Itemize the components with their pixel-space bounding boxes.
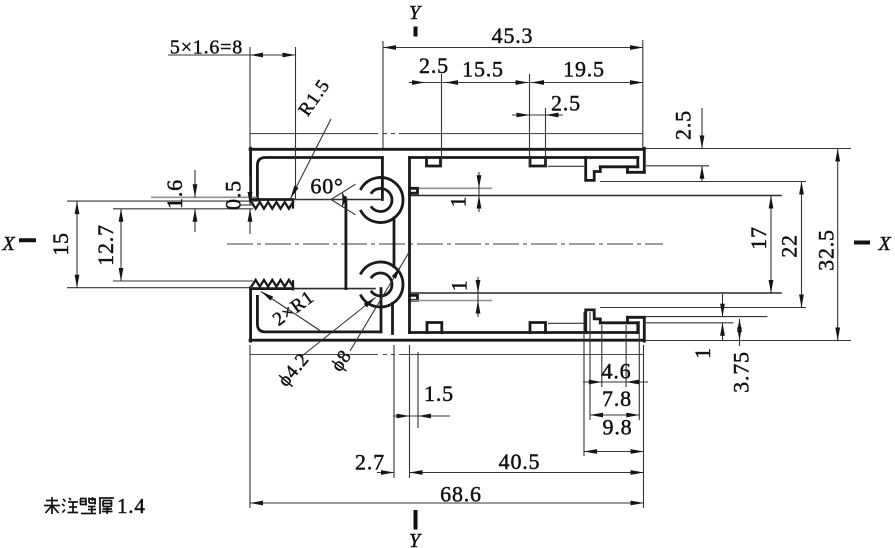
ext line y165.8 [646, 165, 709, 167]
dim 2.5 mid arrows [517, 113, 530, 118]
ext line x418 bottom [417, 352, 419, 428]
svg-text:1: 1 [447, 280, 472, 292]
top screw boss outer arc (phi8) [361, 178, 403, 223]
bottom screw boss outer arc (phi8) [361, 262, 403, 307]
leader R1.5 line [291, 119, 332, 199]
bottom hook foot top [628, 316, 645, 319]
dim 0.5 line lower [249, 209, 251, 234]
ext line x601.8 [601, 325, 603, 387]
svg-text:X: X [877, 233, 891, 255]
bottom jaw topside thin continuation [291, 288, 375, 290]
axis Y tick bottom [414, 510, 418, 530]
central wall lower left edge [391, 304, 394, 334]
60 deg arc [342, 192, 344, 206]
bottom serration end step [292, 281, 294, 289]
60 deg vertex line [293, 199, 347, 201]
leader 2xR1 line [261, 292, 320, 331]
dim 45.3 line [383, 47, 643, 49]
dim 1.6 arrows [193, 184, 198, 197]
top hook foot bottom [628, 171, 645, 174]
dim 5x1.6=8 arrows [250, 53, 263, 58]
right channel inner bottom wall [410, 331, 638, 334]
profile top outer wall [250, 148, 644, 151]
dim 40.5 arrows [410, 470, 423, 475]
leader phi8 line [350, 252, 410, 352]
bottom wall flange [410, 295, 418, 300]
bottom inner hook staircase [586, 310, 601, 333]
60 deg upper leg [331, 184, 356, 199]
ext line x626.1 [625, 325, 627, 387]
ext line x394 bottom [393, 345, 395, 478]
svg-text:R1.5: R1.5 [295, 76, 335, 121]
ext line y307.5 [600, 307, 806, 309]
dim 1 bottom-right line lower [722, 323, 724, 340]
dim 15.5/19.5 arrows [516, 80, 529, 85]
svg-text:9.8: 9.8 [603, 415, 633, 440]
profile bottom outer wall [250, 339, 644, 342]
dim 1 bottom-right arrows [720, 304, 725, 317]
svg-text:ϕ8: ϕ8 [327, 346, 356, 375]
dim 0.5 line upper [249, 176, 251, 205]
svg-text:40.5: 40.5 [499, 449, 541, 474]
bottom rib 1 [427, 323, 442, 333]
profile right edge bottom [643, 317, 646, 341]
dim 12.7 line [120, 209, 122, 281]
central wall left edge [393, 218, 396, 267]
top inner hook staircase [586, 158, 601, 181]
bottom hook foot left wall [626, 317, 629, 323]
svg-text:2.5: 2.5 [419, 53, 449, 78]
ext line x529.5 [529, 74, 531, 166]
ext line x441.5 [441, 74, 443, 166]
dim 2.5 top-left arrows [412, 80, 425, 85]
svg-text:1.6: 1.6 [162, 179, 187, 209]
ext line x643 top [642, 40, 644, 148]
svg-text:1.4: 1.4 [117, 494, 146, 518]
right channel inner top end drop [636, 158, 639, 167]
top jaw underside [251, 198, 291, 201]
bottom jaw topside [251, 287, 291, 290]
60 deg arc arrows [342, 192, 347, 203]
svg-text:1: 1 [446, 196, 471, 208]
dim 3.75 line [739, 319, 741, 346]
svg-text:0.5: 0.5 [221, 180, 246, 210]
svg-text:3.75: 3.75 [729, 351, 754, 393]
svg-text:Y: Y [409, 530, 422, 548]
top serration teeth [252, 202, 294, 209]
ext line x639.3 [638, 321, 640, 420]
ext line y148.5 right [645, 148, 851, 150]
right channel inner top wall [410, 156, 638, 159]
phantom line top [250, 133, 643, 135]
left box inner cavity bottom-left corner [257, 296, 381, 332]
top serration end step [292, 199, 294, 207]
leader R1.5 arrow [291, 186, 299, 199]
dim 2.5 mid line [512, 114, 563, 116]
svg-text:12.7: 12.7 [93, 224, 118, 266]
note text 'wall thickness 1.4' CJK strokes [44, 497, 114, 514]
left box cavity right wall upper [381, 158, 384, 200]
centerline X-X [227, 243, 663, 245]
svg-text:19.5: 19.5 [563, 57, 605, 82]
svg-text:ϕ4.2: ϕ4.2 [274, 349, 314, 391]
left box outer left wall lower [249, 288, 252, 342]
dim 15 line [76, 201, 78, 288]
profile right edge top [643, 148, 646, 172]
svg-text:17: 17 [746, 226, 771, 250]
bottom serration teeth [252, 280, 294, 287]
ext line y287.7 [67, 287, 257, 289]
dim 2.7 line [377, 472, 394, 474]
dim 22 arrows [799, 182, 804, 195]
svg-text:2.5: 2.5 [671, 110, 696, 140]
60 deg lower leg [331, 200, 356, 215]
ext line y208.8 [113, 208, 253, 210]
svg-text:2×R1: 2×R1 [269, 287, 318, 331]
svg-text:1.5: 1.5 [424, 381, 454, 406]
left box inner cavity top-left corner [257, 158, 382, 201]
leader phi4.2 line [302, 298, 376, 357]
hook shelf thin extension top [548, 165, 584, 167]
dim 3.75 arrows [737, 319, 742, 332]
dim 1 channel top line [478, 172, 480, 212]
dim 1.6 line upper [194, 170, 196, 197]
ext line y197.3 gray [151, 196, 257, 198]
dim 17 arrows [769, 196, 774, 209]
dim 32.5 arrows [835, 149, 840, 162]
dim 5x1.6=8 line [168, 54, 296, 56]
dim 2.7 arrow [381, 470, 394, 475]
svg-text:15.5: 15.5 [462, 57, 504, 82]
top hook shelf line [600, 165, 638, 168]
bottom screw boss inner arc (phi4.2) [372, 273, 392, 296]
ext line x584 [583, 312, 585, 456]
dim 9.8 arrows [584, 449, 597, 454]
top screw boss inner arc (phi4.2) [372, 189, 392, 212]
right channel inner bottom end rise [636, 323, 639, 333]
svg-text:7.8: 7.8 [602, 386, 632, 411]
top groove 2 [530, 158, 546, 167]
ext line x250 top [249, 47, 251, 148]
dim row line [409, 82, 643, 84]
dim 4.6 line [583, 381, 648, 383]
svg-text:Y: Y [409, 2, 422, 24]
ext line y322.8 [645, 322, 734, 324]
dim 1.5 line [393, 415, 450, 417]
top wall flange [410, 188, 418, 193]
axis Y tick top [414, 27, 418, 37]
dim 12.7 arrows [119, 209, 124, 222]
jaw mouth back wall [344, 200, 347, 289]
dim 2.5 right arrows [700, 136, 705, 149]
ext line x409.5 bottom [409, 345, 411, 478]
dim 15 arrows [75, 201, 80, 214]
dim 22 line [801, 182, 803, 308]
dim 1 channel bottom arrows [476, 280, 481, 293]
svg-text:15: 15 [48, 232, 73, 256]
bottom rib 2 [530, 323, 546, 333]
svg-text:1: 1 [690, 347, 715, 359]
svg-text:2.5: 2.5 [551, 91, 581, 116]
gray insert line top [419, 187, 492, 189]
dim 1 channel bottom line [477, 277, 479, 317]
ext line x383 [382, 41, 384, 148]
gray insert line bottom [411, 300, 492, 302]
svg-text:22: 22 [777, 234, 802, 258]
dim 68.6 arrows [250, 501, 263, 506]
dim 7.8 line [590, 414, 639, 416]
hook shelf thin extension bottom [548, 322, 584, 324]
dim 40.5 line [410, 472, 644, 474]
ext line x250 bottom [249, 345, 251, 508]
top hook foot left wall [626, 167, 629, 173]
glass line bottom [411, 292, 781, 294]
svg-text:45.3: 45.3 [492, 23, 534, 48]
dim 2.5 right line lower [701, 166, 703, 182]
glass line top [411, 195, 781, 197]
dim 1.5 arrows [397, 414, 410, 419]
dim 68.6 line [250, 502, 644, 504]
leader phi4.2 arrow [364, 298, 376, 308]
ext line x295.5 [295, 47, 297, 199]
top jaw underside thin continuation [291, 199, 382, 201]
top groove 1 [427, 158, 441, 167]
svg-text:4.6: 4.6 [602, 359, 632, 384]
dim 7.8 arrows [590, 413, 603, 418]
leader 2xR1 arrow [261, 292, 273, 301]
axis X tick left [19, 238, 36, 242]
left box outer left wall upper [249, 148, 252, 200]
ext line y316.6 [645, 316, 768, 318]
svg-text:2.7: 2.7 [355, 450, 385, 475]
central wall right edge [408, 158, 411, 333]
ext line y205 short [240, 204, 253, 206]
left box cavity right wall lower [380, 289, 383, 332]
dim 17 line [770, 196, 772, 294]
ext line x643.5 bottom [643, 345, 645, 508]
dim 9.8 line [584, 451, 644, 453]
svg-text:X: X [1, 233, 15, 255]
dim 45.3 arrows [383, 45, 396, 50]
leader phi8 arrow [392, 267, 401, 279]
dim 1 channel top arrows [477, 175, 482, 188]
ext line y281 [113, 280, 253, 282]
phantom line bottom [250, 354, 643, 356]
dim 4.6 arrows [589, 380, 602, 385]
ext line y181.5 [600, 181, 806, 183]
ext line x590 [589, 312, 591, 420]
bottom hook shelf line [600, 321, 638, 324]
dim 32.5 line [837, 149, 839, 341]
dim 2.5 right line upper [701, 108, 703, 149]
dim 0.5 arrows [248, 192, 253, 205]
svg-text:32.5: 32.5 [814, 229, 839, 271]
ext line y201.1 [67, 200, 257, 202]
dim 1.6 line lower [194, 209, 196, 232]
ext line x545.5 [545, 108, 547, 166]
ext line y340.5 right [645, 340, 851, 342]
dim 1 bottom-right line upper [722, 294, 724, 317]
axis X tick right [854, 241, 870, 245]
